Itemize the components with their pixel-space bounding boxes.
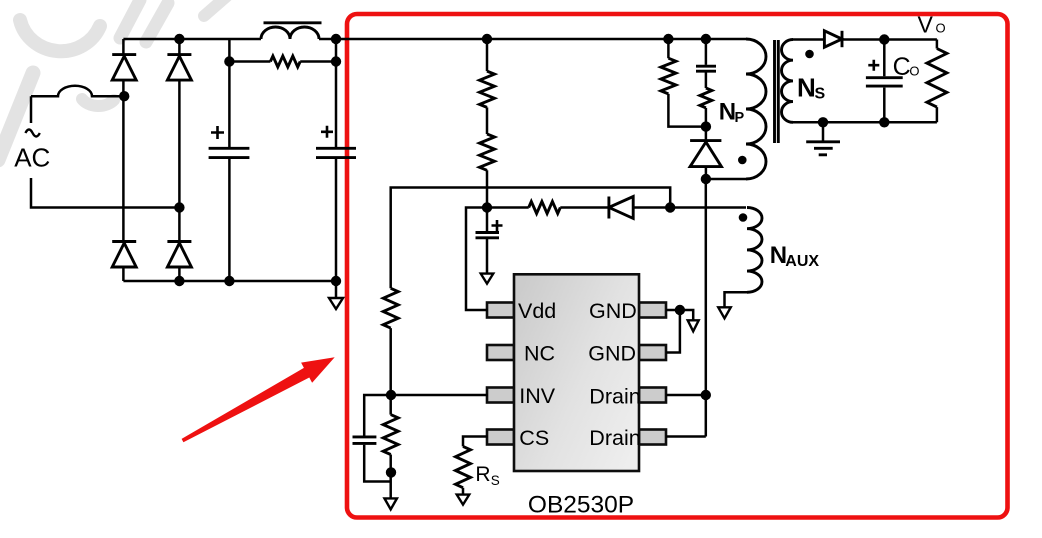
svg-text:C: C — [893, 53, 911, 81]
svg-text:AUX: AUX — [785, 253, 819, 270]
svg-text:GND: GND — [589, 299, 637, 323]
svg-text:Vdd: Vdd — [518, 299, 556, 323]
svg-text:CS: CS — [519, 426, 549, 450]
svg-text:GND: GND — [588, 341, 636, 365]
svg-text:O: O — [909, 64, 919, 79]
svg-text:Drain: Drain — [589, 426, 640, 450]
svg-text:OB2530P: OB2530P — [528, 492, 634, 519]
svg-text:NC: NC — [524, 341, 555, 365]
svg-text:Drain: Drain — [589, 385, 640, 409]
svg-text:O: O — [936, 21, 946, 36]
svg-text:INV: INV — [519, 384, 556, 408]
svg-text:N: N — [797, 72, 816, 102]
svg-text:AC: AC — [14, 143, 50, 173]
svg-text:V: V — [918, 12, 934, 38]
svg-text:S: S — [491, 473, 500, 488]
svg-text:R: R — [475, 463, 490, 486]
svg-text:P: P — [735, 110, 745, 126]
svg-text:S: S — [815, 86, 826, 103]
